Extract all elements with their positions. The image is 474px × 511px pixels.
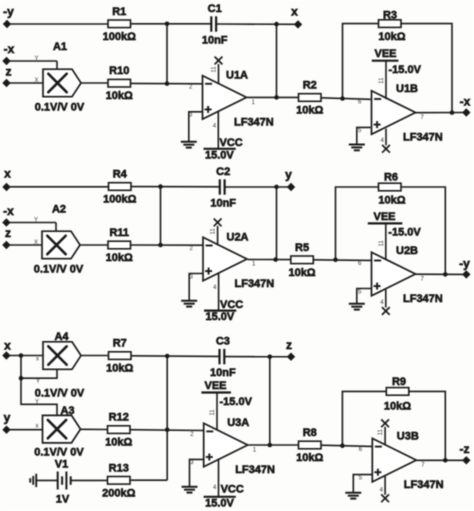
wire: [56, 61, 58, 69]
wire: [276, 24, 278, 97]
junction: [274, 185, 279, 190]
svg-text:200kΩ: 200kΩ: [102, 487, 135, 499]
svg-text:10kΩ: 10kΩ: [288, 267, 315, 279]
svg-text:V1: V1: [55, 459, 68, 471]
svg-text:A2: A2: [52, 204, 66, 216]
multiplier A2: [34, 204, 84, 276]
wire x to A3 Y input: [21, 378, 57, 415]
resistor R7: [106, 338, 133, 375]
junction: [165, 81, 170, 86]
wire: [130, 429, 204, 432]
resistor R9: [384, 376, 411, 413]
wire: [224, 356, 291, 358]
node y: [2, 426, 10, 434]
svg-text:11: 11: [379, 77, 385, 84]
svg-text:Y: Y: [36, 379, 40, 385]
wire: [269, 357, 271, 445]
wire: [7, 186, 109, 188]
wire: [416, 459, 466, 461]
svg-text:0.1V/V 0V: 0.1V/V 0V: [35, 388, 85, 400]
wire: [314, 259, 372, 262]
wire: [247, 96, 299, 98]
unconnected pin 4 (x mark): [381, 129, 390, 153]
resistor R2: [296, 80, 323, 117]
junction: [19, 353, 24, 358]
resistor R8: [296, 427, 323, 464]
svg-text:Y: Y: [35, 399, 39, 405]
resistor R5: [288, 242, 315, 279]
svg-text:11: 11: [210, 409, 216, 416]
svg-text:VCC: VCC: [220, 299, 243, 311]
svg-text:x: x: [36, 424, 39, 430]
feedback wire from R3 to output: [401, 24, 452, 113]
svg-text:y: y: [4, 411, 11, 425]
wire: [248, 444, 298, 446]
feedback wire to R6: [336, 187, 379, 260]
svg-text:R10: R10: [109, 65, 129, 77]
svg-text:11: 11: [378, 429, 384, 436]
svg-text:R11: R11: [109, 227, 129, 239]
svg-text:10nF: 10nF: [210, 198, 236, 210]
svg-text:-15.0V: -15.0V: [220, 396, 253, 408]
node z: [2, 79, 10, 87]
power VEE -15.0V: [372, 48, 422, 99]
wire: [131, 82, 203, 84]
junction: [274, 22, 279, 27]
wire: [131, 186, 220, 188]
wire: [7, 429, 43, 431]
power VCC 15.0V: [204, 459, 244, 510]
node x: [2, 183, 10, 191]
node y: [287, 183, 295, 191]
svg-text:LF347N: LF347N: [235, 464, 275, 476]
power VEE -15.0V: [368, 211, 422, 260]
svg-text:100kΩ: 100kΩ: [103, 194, 136, 206]
svg-text:VEE: VEE: [205, 380, 227, 392]
junction: [158, 184, 163, 189]
wire: [7, 60, 58, 62]
wire: [216, 23, 298, 25]
svg-text:LF347N: LF347N: [404, 479, 444, 491]
svg-text:U2A: U2A: [227, 231, 249, 243]
wire + input to ground (U2A): [189, 274, 203, 301]
wire + input to ground (U1B): [357, 127, 371, 144]
wire: [166, 24, 168, 84]
junction: [165, 427, 170, 432]
svg-text:10kΩ: 10kΩ: [106, 363, 133, 375]
svg-text:R9: R9: [392, 376, 406, 388]
node x: [294, 20, 302, 28]
ground: [345, 493, 361, 499]
wire: [55, 223, 57, 232]
wire: [131, 244, 204, 246]
op-amp U1B: [358, 83, 443, 144]
svg-text:R12: R12: [109, 412, 129, 424]
svg-text:10kΩ: 10kΩ: [106, 90, 133, 102]
svg-text:U1A: U1A: [226, 70, 248, 82]
svg-text:15.0V: 15.0V: [205, 149, 234, 161]
svg-text:R4: R4: [113, 169, 128, 181]
svg-text:U3B: U3B: [397, 431, 419, 443]
node -x: [462, 108, 470, 116]
svg-text:z: z: [5, 226, 11, 240]
wire: [416, 112, 467, 114]
svg-text:-x: -x: [460, 95, 471, 109]
unconnected pin 11 (x mark): [211, 219, 222, 246]
svg-text:Y: Y: [34, 218, 38, 224]
unconnected pin 4 (x mark): [380, 476, 389, 502]
svg-text:11: 11: [211, 228, 217, 235]
svg-text:-x: -x: [4, 42, 15, 56]
svg-text:x: x: [291, 5, 298, 19]
wire + input to ground (U3B): [353, 475, 372, 493]
node -x: [2, 218, 10, 226]
svg-text:C3: C3: [216, 336, 230, 348]
wire: [248, 259, 291, 261]
op-amp U2B: [358, 245, 443, 305]
svg-text:x: x: [4, 339, 11, 353]
wire: [276, 187, 278, 260]
svg-text:R8: R8: [303, 427, 317, 439]
node -y: [462, 270, 470, 278]
junction: [443, 272, 448, 277]
junction: [443, 458, 448, 463]
ground: [182, 487, 198, 493]
svg-text:11: 11: [212, 66, 218, 73]
wire: [160, 187, 162, 245]
svg-text:z: z: [286, 338, 292, 352]
svg-text:R5: R5: [295, 242, 309, 254]
svg-text:R6: R6: [384, 172, 398, 184]
resistor R10: [106, 65, 133, 102]
junction: [450, 110, 455, 115]
resistor R11: [106, 227, 133, 264]
power VEE -15.0V: [201, 380, 252, 430]
svg-text:y: y: [285, 168, 292, 182]
svg-text:A1: A1: [53, 41, 67, 53]
power VCC 15.0V: [204, 273, 243, 324]
svg-text:10nF: 10nF: [202, 35, 228, 47]
wire: [321, 445, 372, 446]
node -x: [2, 57, 10, 65]
svg-text:R7: R7: [113, 338, 127, 350]
feedback wire to R9: [342, 391, 386, 445]
svg-text:VCC: VCC: [221, 483, 244, 495]
battery V1: [55, 459, 71, 506]
junction: [268, 354, 273, 359]
svg-text:15.0V: 15.0V: [206, 311, 235, 323]
svg-text:0.1V/V 0V: 0.1V/V 0V: [34, 447, 84, 459]
unconnected pin 4 (x mark): [380, 290, 389, 315]
svg-text:0.1V/V 0V: 0.1V/V 0V: [34, 264, 84, 276]
svg-text:10kΩ: 10kΩ: [378, 195, 405, 207]
ground (left of battery): [30, 474, 58, 487]
svg-text:R3: R3: [383, 10, 397, 22]
svg-text:A4: A4: [54, 331, 69, 343]
wire: [166, 356, 168, 480]
svg-text:-z: -z: [460, 442, 470, 456]
wire: [130, 479, 167, 481]
svg-text:10kΩ: 10kΩ: [105, 437, 132, 449]
junction: [274, 95, 279, 100]
svg-text:VEE: VEE: [374, 211, 396, 223]
unconnected pin 11 (x mark): [212, 57, 223, 84]
wire: [7, 82, 44, 84]
op-amp U1A: [189, 70, 274, 129]
multiplier A1: [35, 41, 85, 114]
svg-text:-x: -x: [3, 204, 14, 218]
ground: [181, 142, 197, 148]
wire: [81, 82, 108, 84]
node -y: [3, 20, 11, 28]
wire: [131, 355, 220, 358]
wire: [81, 355, 108, 357]
svg-text:LF347N: LF347N: [234, 116, 274, 128]
node x: [2, 351, 10, 359]
svg-text:10nF: 10nF: [210, 367, 236, 379]
multiplier A3: [34, 405, 84, 459]
svg-text:R2: R2: [303, 80, 317, 92]
wire: [416, 273, 467, 275]
feedback wire from R6 to output: [401, 187, 445, 274]
svg-text:U2B: U2B: [396, 245, 418, 257]
svg-text:-15.0V: -15.0V: [389, 64, 422, 76]
svg-text:z: z: [6, 65, 12, 79]
junction: [19, 376, 24, 381]
svg-text:-15.0V: -15.0V: [388, 227, 421, 239]
wire: [81, 428, 108, 430]
resistor R6: [378, 172, 405, 207]
svg-text:C2: C2: [216, 166, 230, 178]
junction: [158, 243, 163, 248]
resistor R13: [102, 462, 135, 499]
svg-text:X: X: [34, 78, 38, 84]
svg-text:10kΩ: 10kΩ: [106, 252, 133, 264]
ground: [349, 145, 365, 151]
wire: [80, 244, 108, 246]
op-amp U2A: [190, 231, 275, 290]
svg-text:15.0V: 15.0V: [205, 497, 234, 509]
svg-text:10kΩ: 10kΩ: [296, 105, 323, 117]
wire: [321, 98, 371, 100]
svg-text:C1: C1: [208, 3, 222, 15]
capacitor C1: [202, 3, 228, 47]
wire: [6, 355, 43, 357]
svg-text:U3A: U3A: [227, 417, 249, 429]
capacitor C3: [210, 336, 236, 380]
svg-text:10kΩ: 10kΩ: [384, 401, 411, 413]
junction: [340, 96, 345, 101]
svg-text:10kΩ: 10kΩ: [378, 31, 405, 43]
ground: [349, 304, 365, 310]
ground: [181, 301, 197, 307]
wire: [6, 222, 56, 224]
resistor R4: [103, 169, 136, 206]
svg-text:x: x: [4, 167, 11, 181]
svg-text:0.1V/V 0V: 0.1V/V 0V: [35, 102, 85, 114]
resistor R12: [105, 412, 132, 449]
svg-text:-y: -y: [459, 257, 470, 271]
multiplier A4: [35, 331, 85, 400]
resistor R3: [378, 10, 405, 44]
svg-text:U1B: U1B: [396, 83, 418, 95]
svg-text:10kΩ: 10kΩ: [296, 452, 323, 464]
node -z: [462, 456, 470, 464]
unconnected pin 11 (x mark): [378, 419, 389, 445]
svg-text:-y: -y: [3, 5, 14, 19]
power VCC 15.0V: [204, 111, 243, 161]
svg-text:100kΩ: 100kΩ: [103, 31, 136, 43]
node z: [287, 353, 295, 361]
wire + input to ground (U2B): [357, 289, 372, 304]
svg-text:LF347N: LF347N: [403, 132, 443, 144]
junction: [340, 443, 345, 448]
op-amp U3B: [359, 431, 444, 492]
svg-text:VCC: VCC: [220, 137, 243, 149]
svg-text:VEE: VEE: [375, 48, 397, 60]
resistor R1: [103, 6, 136, 43]
junction: [268, 443, 273, 448]
wire: [7, 23, 108, 25]
wire: [71, 479, 108, 481]
junction: [333, 258, 338, 263]
junction: [165, 354, 170, 359]
feedback wire from R9 to output: [409, 391, 446, 460]
svg-text:1V: 1V: [56, 494, 70, 506]
junction: [165, 22, 170, 27]
svg-text:A3: A3: [60, 405, 74, 417]
svg-text:Y: Y: [34, 56, 38, 62]
svg-text:11: 11: [379, 240, 385, 247]
wire: [225, 186, 291, 188]
svg-text:R1: R1: [112, 6, 126, 18]
feedback wire to R3: [343, 24, 379, 99]
svg-text:R13: R13: [109, 462, 129, 474]
wire: [6, 244, 42, 246]
svg-text:X: X: [34, 240, 38, 246]
wire + input to ground (U3A): [190, 459, 204, 486]
wire x to A4 Y input: [21, 356, 57, 379]
junction: [273, 257, 278, 262]
svg-text:x: x: [36, 357, 39, 363]
svg-text:LF347N: LF347N: [235, 278, 275, 290]
capacitor C2: [210, 166, 236, 210]
svg-text:LF347N: LF347N: [403, 293, 443, 305]
wire + input to ground: [189, 112, 203, 142]
node z: [2, 241, 10, 249]
op-amp U3A: [190, 417, 275, 476]
wire: [131, 23, 212, 25]
